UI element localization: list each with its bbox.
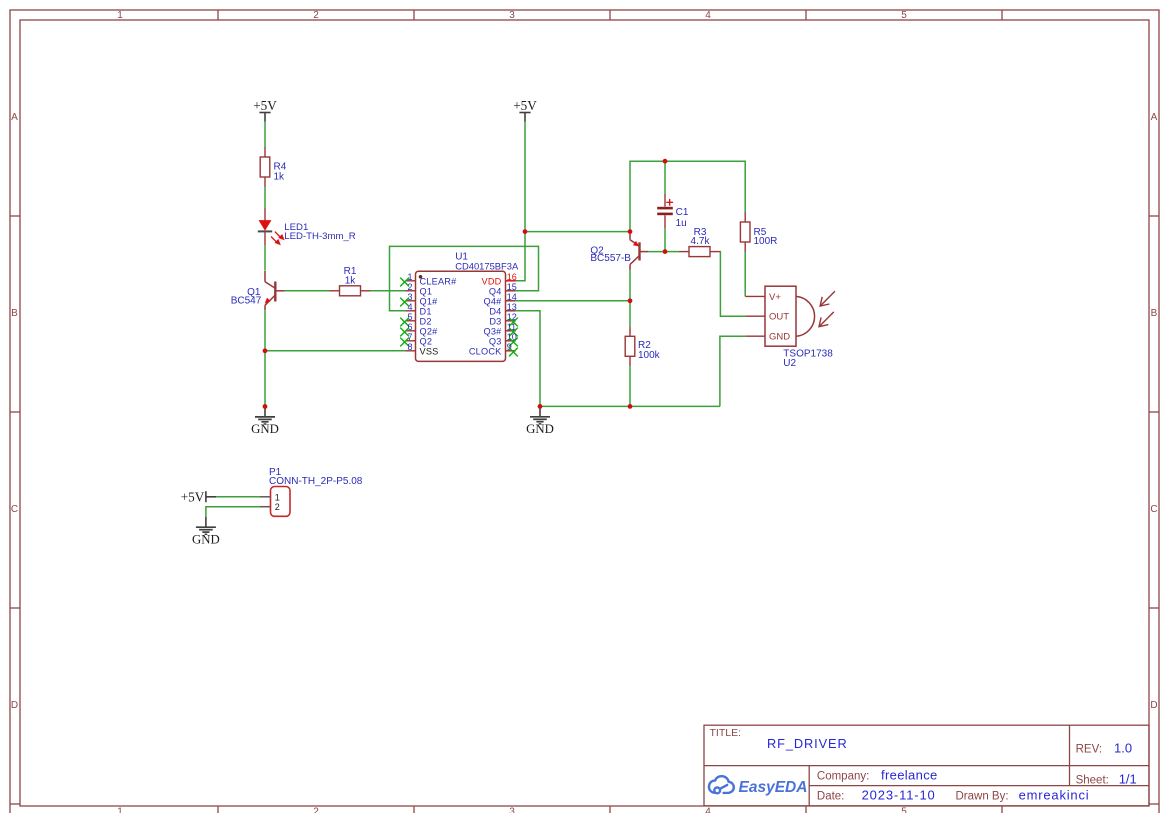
wire Q2 base to R3 bbox=[648, 251, 665, 253]
svg-text:BC547: BC547 bbox=[231, 295, 262, 306]
junction +5V rail branch bbox=[523, 229, 528, 234]
svg-text:D: D bbox=[11, 700, 18, 711]
resistor R3 bbox=[679, 247, 720, 257]
svg-text:2: 2 bbox=[275, 502, 280, 512]
svg-text:V+: V+ bbox=[769, 292, 781, 303]
svg-text:1k: 1k bbox=[345, 276, 357, 287]
svg-text:100k: 100k bbox=[638, 350, 661, 361]
svg-text:D2: D2 bbox=[420, 316, 432, 326]
wire U1 Q4# pin 14 to Q2 collector node bbox=[516, 300, 630, 302]
wire +5V rail to Q2 emitter bbox=[525, 231, 630, 233]
svg-text:Q2: Q2 bbox=[420, 336, 433, 346]
frame row labels bbox=[11, 112, 1158, 711]
svg-text:13: 13 bbox=[507, 302, 517, 312]
svg-text:4.7k: 4.7k bbox=[691, 236, 711, 247]
svg-text:Company:: Company: bbox=[817, 771, 869, 783]
ground GND (net GND) left bbox=[251, 407, 279, 437]
R2 labels 100k bbox=[638, 340, 661, 361]
svg-text:1: 1 bbox=[407, 272, 412, 282]
resistor R4 bbox=[260, 147, 270, 187]
svg-text:Sheet:: Sheet: bbox=[1076, 775, 1109, 787]
svg-text:C: C bbox=[11, 504, 18, 515]
U1 pin 5 D2 bbox=[400, 312, 431, 327]
U1 pin 2 Q1 bbox=[406, 282, 433, 297]
power +5V (net +5V) at U1 VDD bbox=[513, 98, 537, 121]
R3 labels 4.7k bbox=[691, 227, 711, 247]
frame column labels bbox=[117, 10, 907, 813]
svg-text:15: 15 bbox=[507, 282, 517, 292]
junction ground rail / R2 bbox=[628, 404, 633, 409]
svg-text:VDD: VDD bbox=[482, 276, 502, 286]
svg-text:1: 1 bbox=[117, 807, 123, 813]
wire ground rail bbox=[540, 405, 720, 407]
wire R4 to LED1 bbox=[264, 187, 266, 208]
wire to GND 1 bbox=[264, 351, 266, 407]
svg-text:A: A bbox=[1151, 112, 1158, 123]
svg-text:C1: C1 bbox=[676, 207, 689, 218]
junction Q2 emitter rail bbox=[628, 229, 633, 234]
connector P1 CONN-TH_2P-P5.08 bbox=[260, 487, 290, 517]
U1 pin 15 Q4 bbox=[489, 282, 517, 297]
U1 pin 9 CLOCK bbox=[469, 342, 518, 357]
junction at GND 1 bbox=[263, 404, 268, 409]
U1 pin 6 Q2# bbox=[400, 322, 438, 337]
junction ground rail / D4 / GND 2 bbox=[538, 404, 543, 409]
R1 labels 1k bbox=[344, 266, 357, 287]
svg-text:14: 14 bbox=[507, 292, 517, 302]
svg-text:CLEAR#: CLEAR# bbox=[420, 276, 458, 286]
svg-text:Q3: Q3 bbox=[489, 336, 502, 346]
svg-text:Q1#: Q1# bbox=[420, 296, 439, 306]
wire U1 D4 pin 13 to ground rail bbox=[516, 311, 540, 407]
svg-text:2023-11-10: 2023-11-10 bbox=[862, 788, 936, 803]
U1 pin 3 Q1# bbox=[400, 292, 438, 307]
svg-text:Q3#: Q3# bbox=[484, 326, 503, 336]
U2 receive arrows bbox=[819, 291, 835, 326]
U1 pin 1 CLEAR# bbox=[400, 272, 457, 287]
svg-text:100R: 100R bbox=[754, 236, 778, 247]
svg-text:6: 6 bbox=[407, 322, 412, 332]
svg-text:D4: D4 bbox=[489, 306, 501, 316]
svg-text:D1: D1 bbox=[420, 306, 432, 316]
junction C1 top bbox=[663, 159, 668, 164]
U1 pin 14 Q4# bbox=[484, 292, 517, 307]
wire LED1 to Q1 collector bbox=[264, 245, 266, 271]
svg-text:4: 4 bbox=[407, 302, 412, 312]
wire R2 to ground rail bbox=[629, 366, 631, 406]
svg-text:1.0: 1.0 bbox=[1114, 741, 1132, 756]
wire U2 GND to ground rail bbox=[720, 336, 745, 406]
svg-text:GND: GND bbox=[251, 422, 279, 436]
junction Q2 collector / pin14 / R2 bbox=[628, 298, 633, 303]
U1 pin 7 Q2 bbox=[400, 332, 432, 347]
resistor R5 bbox=[740, 212, 750, 252]
U1 pin 13 D4 bbox=[489, 302, 516, 317]
Q2 labels bbox=[590, 246, 631, 264]
R4 labels 1k bbox=[274, 161, 287, 182]
wire top rail Q2 emitter to R5 bbox=[630, 161, 745, 231]
svg-text:CONN-TH_2P-P5.08: CONN-TH_2P-P5.08 bbox=[269, 476, 363, 487]
U1 pin 16 VDD bbox=[482, 272, 517, 287]
svg-text:5: 5 bbox=[901, 10, 907, 21]
svg-text:8: 8 bbox=[407, 342, 412, 352]
svg-text:freelance: freelance bbox=[881, 768, 938, 783]
svg-text:VSS: VSS bbox=[420, 346, 439, 356]
IC U2 TSOP1738 body bbox=[745, 286, 814, 346]
svg-text:B: B bbox=[11, 308, 18, 319]
svg-text:Q4: Q4 bbox=[489, 286, 502, 296]
U1 pin 8 VSS bbox=[406, 342, 439, 357]
LED LED1 bbox=[258, 208, 284, 245]
svg-text:D3: D3 bbox=[489, 316, 501, 326]
U1 pin 1 marker dot bbox=[419, 275, 423, 279]
U2 labels bbox=[783, 348, 833, 369]
svg-text:1u: 1u bbox=[676, 218, 687, 229]
svg-text:CLOCK: CLOCK bbox=[469, 346, 502, 356]
svg-text:LED-TH-3mm_R: LED-TH-3mm_R bbox=[284, 231, 355, 242]
wire R3 to U2 OUT bbox=[720, 252, 745, 317]
svg-text:+5V: +5V bbox=[181, 489, 205, 504]
svg-text:OUT: OUT bbox=[769, 312, 789, 323]
resistor R1 bbox=[330, 286, 371, 296]
ground GND (net GND) middle bbox=[526, 406, 554, 436]
ground GND (net GND) at P1 bbox=[192, 517, 220, 547]
svg-text:BC557-B: BC557-B bbox=[590, 253, 631, 264]
svg-text:+5V: +5V bbox=[513, 98, 537, 113]
svg-text:3: 3 bbox=[509, 807, 515, 813]
svg-text:1: 1 bbox=[117, 10, 123, 21]
wire +5V to P1 pin 1 bbox=[216, 496, 260, 498]
C1 labels bbox=[676, 207, 689, 229]
svg-text:3: 3 bbox=[509, 10, 515, 21]
U1 pin 12 D3 bbox=[489, 312, 517, 327]
U1 pin 10 Q3 bbox=[489, 332, 518, 347]
svg-text:A: A bbox=[11, 112, 18, 123]
svg-text:RF_DRIVER: RF_DRIVER bbox=[767, 736, 848, 751]
svg-text:emreakinci: emreakinci bbox=[1019, 788, 1090, 803]
svg-text:U2: U2 bbox=[783, 358, 796, 369]
svg-text:2: 2 bbox=[313, 807, 319, 813]
LED1 labels bbox=[284, 222, 355, 242]
wire P1 pin 2 to GND 3 bbox=[206, 507, 260, 517]
svg-text:1k: 1k bbox=[274, 171, 286, 182]
junction C1 bottom / Q2 base bbox=[663, 249, 668, 254]
wire R5 to U2 V+ bbox=[744, 252, 746, 296]
wire Q1 emitter down bbox=[264, 310, 266, 351]
IC U1 CD40175BF3A body bbox=[416, 271, 506, 361]
svg-text:C: C bbox=[1150, 504, 1157, 515]
wire Q2 collector to R2 bbox=[629, 301, 631, 327]
svg-text:Date:: Date: bbox=[817, 791, 845, 803]
wire +5V down to U1 VDD pin 16 bbox=[516, 122, 526, 281]
svg-text:5: 5 bbox=[901, 807, 907, 813]
svg-text:2: 2 bbox=[407, 282, 412, 292]
svg-text:GND: GND bbox=[526, 422, 554, 436]
U1 pin 4 D1 bbox=[406, 302, 432, 317]
U1 labels bbox=[455, 252, 519, 272]
power +5V (net +5V) at R4 bbox=[253, 98, 277, 121]
wire Q1 base to R1 bbox=[285, 290, 330, 292]
P1 labels bbox=[269, 467, 363, 487]
capacitor C1 1u (polarized) bbox=[657, 161, 673, 251]
R5 labels 100R bbox=[754, 227, 778, 247]
svg-text:Q2#: Q2# bbox=[420, 326, 439, 336]
U1 pin 11 Q3# bbox=[484, 322, 518, 337]
svg-text:1/1: 1/1 bbox=[1119, 772, 1137, 787]
svg-text:3: 3 bbox=[407, 292, 412, 302]
transistor Q1 BC547 bbox=[265, 271, 285, 310]
wire U1 D1 feedback loop to Q4 (pin 4 to pin 15) bbox=[390, 246, 539, 310]
svg-text:1: 1 bbox=[275, 492, 280, 502]
junction Q1 emitter / VSS bbox=[263, 348, 268, 353]
wire emitter to U1 VSS pin 8 bbox=[265, 350, 406, 352]
power +5V (net +5V) at P1 bbox=[181, 489, 217, 504]
svg-text:Q1: Q1 bbox=[420, 286, 433, 296]
svg-text:+5V: +5V bbox=[253, 98, 277, 113]
svg-text:EasyEDA: EasyEDA bbox=[739, 779, 808, 796]
Q1 labels bbox=[231, 287, 262, 306]
title block bbox=[704, 725, 1149, 806]
title block text bbox=[710, 727, 1137, 802]
wire +5V to R4 bbox=[264, 122, 266, 148]
svg-text:CD40175BF3A: CD40175BF3A bbox=[455, 260, 519, 271]
svg-text:5: 5 bbox=[407, 312, 412, 322]
svg-text:2: 2 bbox=[313, 10, 319, 21]
svg-text:4: 4 bbox=[705, 807, 711, 813]
svg-text:D: D bbox=[1150, 700, 1157, 711]
wire R1 to U1 pin 2 bbox=[371, 290, 406, 292]
svg-text:GND: GND bbox=[769, 332, 790, 343]
svg-text:Q4#: Q4# bbox=[484, 296, 503, 306]
transistor Q2 BC557-B bbox=[630, 232, 648, 301]
svg-text:B: B bbox=[1151, 308, 1158, 319]
svg-text:Drawn By:: Drawn By: bbox=[956, 791, 1009, 803]
EasyEDA logo bbox=[709, 776, 734, 793]
svg-text:16: 16 bbox=[507, 272, 517, 282]
svg-text:TITLE:: TITLE: bbox=[710, 727, 742, 739]
resistor R2 bbox=[625, 326, 635, 366]
svg-text:4: 4 bbox=[705, 10, 711, 21]
svg-text:REV:: REV: bbox=[1076, 744, 1102, 756]
svg-text:GND: GND bbox=[192, 532, 220, 546]
svg-text:7: 7 bbox=[407, 332, 412, 342]
